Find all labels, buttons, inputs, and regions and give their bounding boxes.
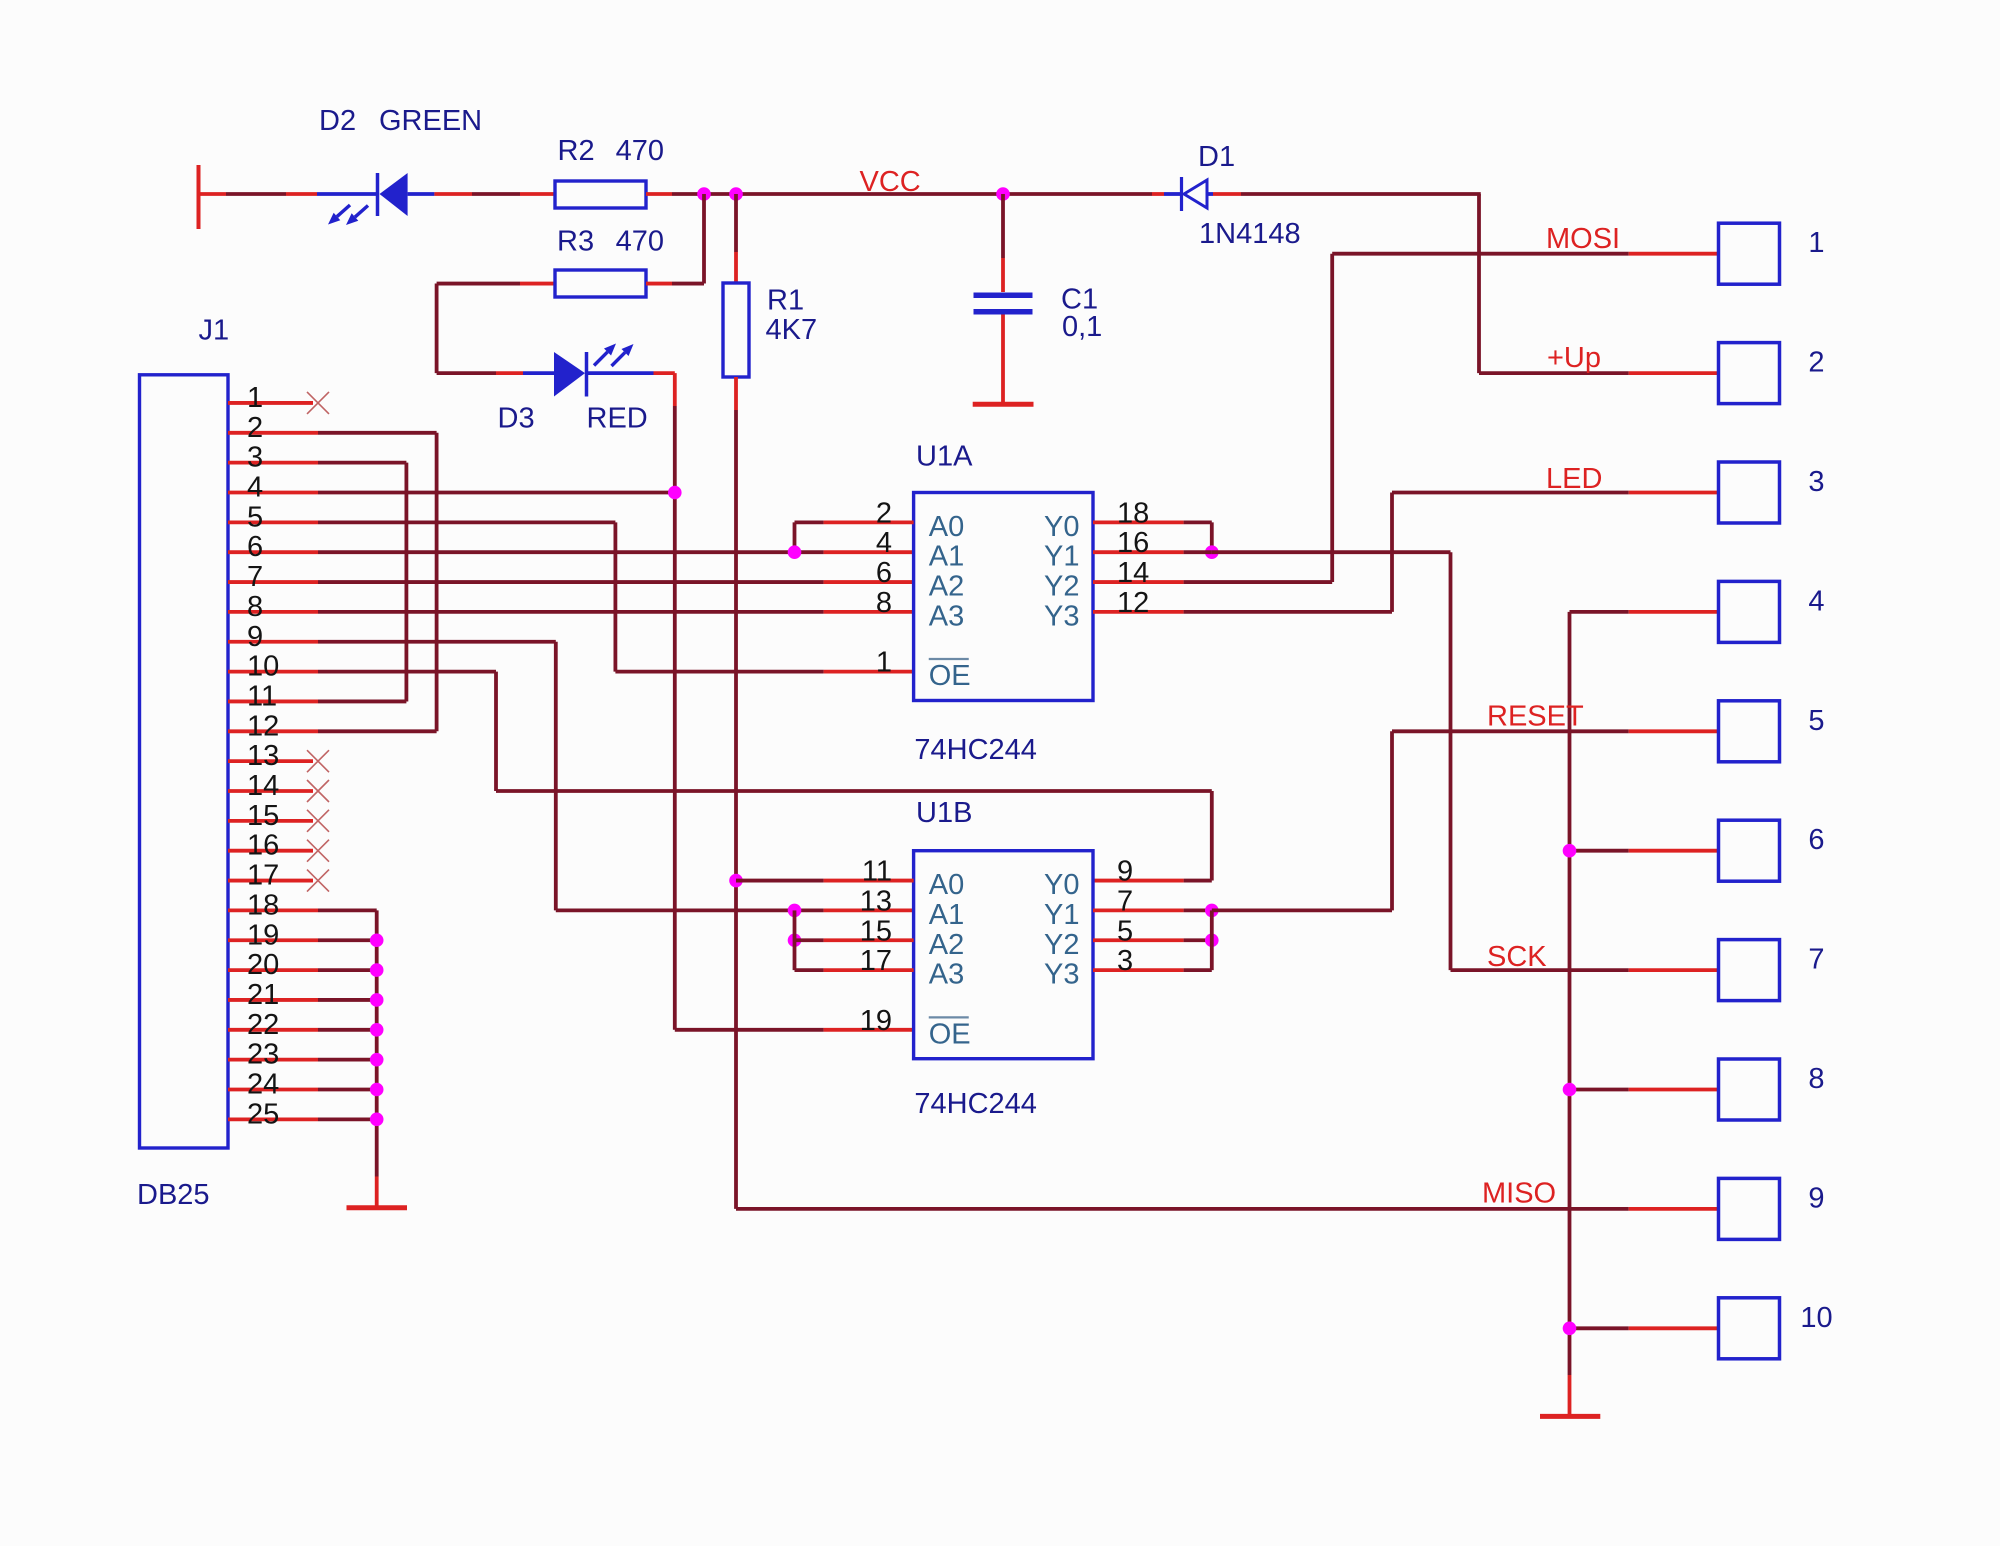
svg-text:R3: R3 <box>557 226 594 258</box>
svg-text:25: 25 <box>247 1098 279 1130</box>
svg-text:J1: J1 <box>199 315 230 347</box>
svg-text:7: 7 <box>1808 944 1824 976</box>
svg-text:74HC244: 74HC244 <box>914 734 1037 766</box>
svg-text:Y0: Y0 <box>1044 869 1079 901</box>
svg-text:A1: A1 <box>929 541 964 573</box>
svg-text:4: 4 <box>1808 585 1824 617</box>
svg-text:3: 3 <box>247 442 263 474</box>
svg-text:18: 18 <box>1117 497 1149 529</box>
svg-text:A1: A1 <box>929 899 964 931</box>
svg-text:16: 16 <box>1117 527 1149 559</box>
svg-text:17: 17 <box>247 860 279 892</box>
svg-text:0,1: 0,1 <box>1062 311 1102 343</box>
svg-text:8: 8 <box>247 591 263 623</box>
svg-text:+Up: +Up <box>1547 342 1601 374</box>
svg-text:1: 1 <box>247 382 263 414</box>
svg-text:4: 4 <box>247 472 263 504</box>
svg-text:MISO: MISO <box>1482 1178 1556 1210</box>
svg-text:12: 12 <box>1117 587 1149 619</box>
svg-text:A0: A0 <box>929 869 964 901</box>
svg-text:DB25: DB25 <box>137 1179 210 1211</box>
svg-text:3: 3 <box>1117 945 1133 977</box>
svg-text:13: 13 <box>860 885 892 917</box>
svg-text:A2: A2 <box>929 929 964 961</box>
svg-text:14: 14 <box>247 770 279 802</box>
svg-text:2: 2 <box>876 497 892 529</box>
svg-text:21: 21 <box>247 979 279 1011</box>
svg-text:15: 15 <box>247 800 279 832</box>
svg-text:18: 18 <box>247 889 279 921</box>
svg-text:Y1: Y1 <box>1044 899 1079 931</box>
svg-text:8: 8 <box>1808 1063 1824 1095</box>
svg-text:Y3: Y3 <box>1044 600 1079 632</box>
svg-text:14: 14 <box>1117 557 1149 589</box>
svg-text:VCC: VCC <box>860 166 921 198</box>
svg-text:A3: A3 <box>929 600 964 632</box>
svg-text:D1: D1 <box>1198 141 1235 173</box>
svg-text:8: 8 <box>876 587 892 619</box>
svg-text:10: 10 <box>1800 1302 1832 1334</box>
svg-text:10: 10 <box>247 651 279 683</box>
svg-text:20: 20 <box>247 949 279 981</box>
svg-text:R2: R2 <box>558 135 595 167</box>
svg-text:RESET: RESET <box>1487 701 1584 733</box>
svg-text:LED: LED <box>1546 463 1602 495</box>
svg-text:MOSI: MOSI <box>1546 223 1620 255</box>
svg-text:Y1: Y1 <box>1044 541 1079 573</box>
svg-text:U1B: U1B <box>916 797 972 829</box>
svg-text:5: 5 <box>1117 915 1133 947</box>
svg-text:23: 23 <box>247 1039 279 1071</box>
svg-text:470: 470 <box>616 226 664 258</box>
svg-text:Y0: Y0 <box>1044 511 1079 543</box>
svg-text:470: 470 <box>616 135 664 167</box>
svg-text:15: 15 <box>860 915 892 947</box>
svg-text:SCK: SCK <box>1487 941 1547 973</box>
svg-text:19: 19 <box>860 1005 892 1037</box>
svg-text:RED: RED <box>587 403 648 435</box>
svg-text:GREEN: GREEN <box>379 105 482 137</box>
svg-text:7: 7 <box>247 561 263 593</box>
svg-text:A0: A0 <box>929 511 964 543</box>
svg-text:A3: A3 <box>929 959 964 991</box>
svg-text:Y2: Y2 <box>1044 929 1079 961</box>
svg-text:5: 5 <box>1808 705 1824 737</box>
svg-text:5: 5 <box>247 501 263 533</box>
svg-text:17: 17 <box>860 945 892 977</box>
svg-text:1N4148: 1N4148 <box>1199 218 1301 250</box>
svg-text:D3: D3 <box>498 403 535 435</box>
svg-text:A2: A2 <box>929 571 964 603</box>
svg-text:4: 4 <box>876 527 892 559</box>
svg-text:9: 9 <box>247 621 263 653</box>
svg-text:D2: D2 <box>319 105 356 137</box>
svg-text:2: 2 <box>1808 347 1824 379</box>
svg-text:11: 11 <box>247 680 277 712</box>
svg-text:9: 9 <box>1117 856 1133 888</box>
svg-text:7: 7 <box>1117 885 1133 917</box>
svg-text:24: 24 <box>247 1069 279 1101</box>
svg-text:3: 3 <box>1808 466 1824 498</box>
svg-text:16: 16 <box>247 830 279 862</box>
svg-text:1: 1 <box>1808 227 1824 259</box>
svg-text:OE: OE <box>929 660 971 692</box>
svg-text:U1A: U1A <box>916 440 973 472</box>
svg-text:Y3: Y3 <box>1044 959 1079 991</box>
svg-text:19: 19 <box>247 919 279 951</box>
svg-text:12: 12 <box>247 710 279 742</box>
svg-text:Y2: Y2 <box>1044 571 1079 603</box>
svg-text:6: 6 <box>876 557 892 589</box>
svg-text:13: 13 <box>247 740 279 772</box>
svg-text:11: 11 <box>862 856 892 888</box>
svg-text:2: 2 <box>247 412 263 444</box>
svg-text:1: 1 <box>876 647 892 679</box>
svg-text:6: 6 <box>1808 824 1824 856</box>
svg-text:R1: R1 <box>767 285 804 317</box>
svg-text:4K7: 4K7 <box>766 314 818 346</box>
svg-text:74HC244: 74HC244 <box>914 1088 1037 1120</box>
svg-text:OE: OE <box>929 1019 971 1051</box>
svg-text:22: 22 <box>247 1009 279 1041</box>
svg-text:6: 6 <box>247 531 263 563</box>
svg-text:9: 9 <box>1808 1182 1824 1214</box>
